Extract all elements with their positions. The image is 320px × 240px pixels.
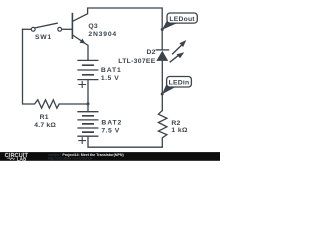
svg-text:2N3904: 2N3904 bbox=[88, 31, 117, 38]
svg-text:http://circuitlab.com/c/achqv: http://circuitlab.com/c/achqv bbox=[48, 157, 93, 161]
svg-text:BAT2: BAT2 bbox=[101, 119, 122, 126]
svg-text:D2: D2 bbox=[147, 49, 156, 56]
svg-text:LEDout: LEDout bbox=[169, 16, 195, 23]
svg-text:R1: R1 bbox=[40, 114, 49, 121]
svg-text:R2: R2 bbox=[171, 120, 180, 127]
svg-text:LEDin: LEDin bbox=[169, 80, 190, 87]
svg-text:LTL-307EE: LTL-307EE bbox=[118, 58, 155, 65]
svg-text:LAB: LAB bbox=[17, 157, 27, 162]
svg-text:SW1: SW1 bbox=[35, 34, 52, 41]
svg-text:1.5 V: 1.5 V bbox=[101, 75, 119, 82]
svg-text:Q3: Q3 bbox=[88, 23, 97, 30]
svg-text:4.7 kΩ: 4.7 kΩ bbox=[34, 122, 56, 129]
svg-text:BAT1: BAT1 bbox=[101, 67, 122, 74]
svg-text:7.5 V: 7.5 V bbox=[101, 128, 119, 135]
svg-text:1 kΩ: 1 kΩ bbox=[171, 127, 188, 134]
